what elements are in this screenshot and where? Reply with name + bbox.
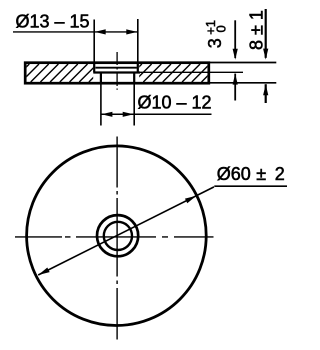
dimension line 10-12 with arrows [101,112,212,117]
counterbore depth line (3 mm step) [93,71,140,73]
dimension text 8 +/- 1 (rotated) [246,10,266,50]
recess inner edge line [96,67,137,69]
dimension line 13-15 with arrows [13,29,138,34]
dimension 8: upper leader with arrow [263,9,268,60]
hole left wall [100,73,102,85]
dimension text 3 +1/0 (rotated) [203,20,228,48]
plate bottom extension line right [210,82,276,84]
counterbore right wall [137,63,139,73]
hatch right half of plate [114,64,229,82]
dimension text diameter 13-15 [16,11,90,31]
dimension text shelf for diameter 60 [214,185,287,187]
vertical centre line of circular view [116,137,118,340]
dimension 3 depth: lower leader with arrow [233,74,238,101]
section centre line [116,52,118,90]
svg-text:Ø13 – 15: Ø13 – 15 [16,11,90,31]
svg-text:Ø60±2: Ø60±2 [217,164,285,184]
plate top extension line right [210,62,276,64]
inner circle (hole 10-12) [104,222,132,250]
dimension 8: lower leader with arrow [263,84,268,103]
hole right extension line [133,84,135,125]
horizontal centre line of circular view [15,236,214,238]
counterbore left wall [93,63,95,73]
svg-text:8 ± 1: 8 ± 1 [246,10,266,50]
outer circle diameter 60 [27,146,207,326]
extension line right of dim 13-15 [137,19,139,62]
plate section outline [25,63,209,83]
extension line left of dim 13-15 [93,20,95,62]
dimension text diameter 10-12 [138,93,212,113]
middle circle (recess 13-15) [97,215,138,256]
dimension text diameter 60 +/- 2 [217,164,285,184]
hole left extension line [100,84,102,125]
depth line extension to the right [140,71,243,73]
hatch left half of plate [2,64,107,82]
dimension 3 depth: upper leader with arrow [233,20,238,60]
svg-text:Ø10 – 12: Ø10 – 12 [138,93,212,113]
dimension line diameter 60 (diagonal with arrows) [38,187,214,275]
hole right wall [133,73,135,85]
